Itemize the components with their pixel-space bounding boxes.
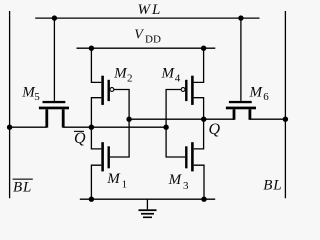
wire ground stub — [146, 199, 148, 209]
junction dot M2 gate / Q wire — [126, 117, 131, 122]
wire M5 gate drop from WL — [53, 18, 55, 101]
transistor M5 right leg — [62, 109, 65, 127]
svg-text:M: M — [113, 66, 128, 82]
transistor M6 left leg — [233, 109, 236, 120]
junction dot node Qbar — [89, 125, 94, 130]
wire M2 gate to Q cross-coupling — [110, 90, 129, 158]
ground bar 1 — [139, 209, 157, 211]
transistor M1 channel bar — [101, 142, 104, 171]
svg-text:M: M — [161, 66, 176, 82]
wire M5 right leg to Qbar cross wire — [63, 126, 166, 128]
transistor M1 gate bar — [108, 146, 110, 168]
wire BLbar to M5 left leg — [10, 126, 47, 128]
junction dot BL/M6 — [283, 117, 288, 122]
overline of BLbar label — [13, 179, 33, 180]
svg-text:Q: Q — [209, 121, 221, 138]
svg-text:DD: DD — [145, 34, 161, 46]
wire M1 source to ground rail — [91, 165, 101, 199]
svg-text:6: 6 — [263, 91, 269, 103]
svg-text:M: M — [168, 172, 183, 188]
wire Q-level horizontal (to M6 and BL) — [129, 118, 234, 120]
ground bar 3 — [143, 217, 152, 219]
transistor M3 gate bar — [185, 146, 187, 168]
svg-text:5: 5 — [34, 91, 40, 103]
wire M4 gate to Qbar cross-coupling — [166, 90, 185, 158]
junction dot gnd/M3 — [201, 197, 206, 202]
junction dot WL/M6 — [238, 15, 243, 20]
wire M6 gate drop from WL — [240, 18, 242, 101]
transistor M3 channel bar — [191, 142, 194, 171]
ground bar 2 — [141, 213, 154, 215]
overline of Qbar label — [74, 131, 84, 132]
pmos bubble M4 — [181, 88, 185, 92]
wire M4 drain to node Q to M3 drain — [194, 98, 204, 149]
transistor M6 right leg — [249, 109, 252, 120]
svg-text:BL: BL — [13, 179, 32, 195]
transistor M5 gate bar — [43, 101, 66, 103]
wire WL word line rail — [35, 17, 259, 19]
svg-text:M: M — [249, 84, 264, 100]
svg-text:BL: BL — [263, 178, 282, 194]
transistor M2 channel bar — [101, 76, 104, 105]
transistor M6 channel bar — [226, 107, 256, 110]
svg-text:M: M — [106, 171, 121, 187]
svg-text:Q: Q — [74, 130, 86, 147]
svg-text:1: 1 — [122, 178, 128, 190]
junction dot VDD/M2 — [89, 46, 94, 51]
pmos bubble M2 — [110, 88, 114, 92]
wire BL bit line (right vertical) — [284, 11, 286, 198]
transistor M6 gate bar — [229, 101, 252, 103]
svg-text:3: 3 — [183, 180, 189, 192]
transistor M5 left leg — [45, 109, 48, 127]
wire VDD rail — [77, 47, 216, 49]
wire M6 right leg to BL — [250, 118, 286, 120]
svg-text:4: 4 — [175, 73, 181, 85]
wire M3 source to ground rail — [194, 165, 204, 199]
wire M2 drain to node Qbar to M1 drain — [91, 98, 101, 149]
junction dot gnd/M1 — [89, 197, 94, 202]
svg-text:WL: WL — [138, 2, 163, 18]
junction dot BLbar/M5 — [7, 125, 12, 130]
transistor M4 channel bar — [191, 76, 194, 105]
svg-text:V: V — [134, 28, 144, 43]
wire M2 source from VDD — [91, 48, 101, 82]
wire ground rail — [80, 198, 215, 200]
junction dot node Q — [201, 117, 206, 122]
junction dot M4 gate / Qbar wire — [163, 125, 168, 130]
svg-text:2: 2 — [127, 73, 133, 85]
transistor M4 gate bar — [185, 80, 187, 101]
transistor M5 channel bar — [39, 107, 69, 110]
junction dot VDD/M4 — [201, 46, 206, 51]
junction dot WL/M5 — [52, 15, 57, 20]
transistor M2 gate bar — [108, 80, 110, 101]
wire BL-bar bit line (left vertical) — [9, 11, 11, 198]
wire M4 source from VDD — [194, 48, 204, 82]
